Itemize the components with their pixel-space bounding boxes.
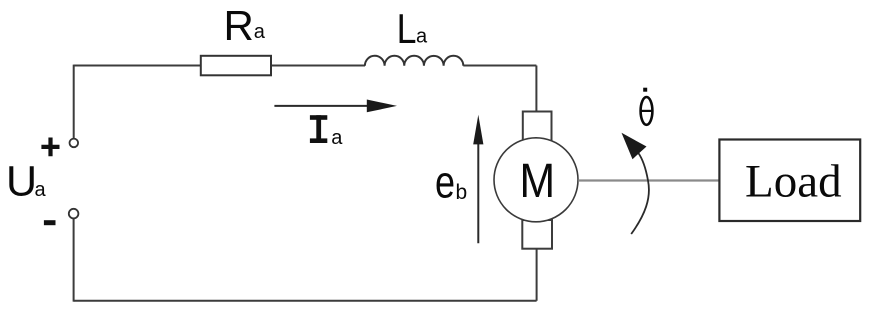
wire top horizontal right segment [463,65,536,67]
wire left rail upper [73,65,75,139]
motor M body [494,138,578,222]
wire left rail lower [73,219,75,302]
svg-text:L: L [397,6,417,52]
wire top horizontal left segment [74,65,202,67]
wire bottom horizontal [74,300,537,302]
label theta-dot: theta [641,97,653,125]
back-emf arrow eb [477,140,479,243]
wire top horizontal middle segment [271,65,365,67]
svg-text:a: a [254,21,266,43]
wire vertical into top brush [535,66,537,114]
svg-text:U: U [6,158,37,206]
svg-text:b: b [456,181,468,204]
svg-text:a: a [35,179,47,201]
terminal node + [70,139,79,148]
inductor L1 coil [365,56,463,66]
svg-text:Load: Load [745,156,842,208]
svg-text:a: a [331,127,343,149]
svg-text:R: R [224,2,254,49]
current arrow Ia [274,105,370,107]
terminal node - [69,209,79,219]
svg-text:e: e [435,157,455,208]
motor brush bottom [522,220,552,249]
wire vertical from bottom brush [536,248,538,301]
theta dot mark [643,88,647,92]
svg-text:a: a [416,26,428,48]
load box [719,140,860,222]
motor brush top [523,112,552,142]
shaft wire to load [578,179,720,181]
rotation arrowhead [622,133,647,159]
svg-text:M: M [520,154,556,208]
plus sign [41,138,59,157]
rotation arrow arc [631,153,649,235]
label Ia (serif I drawn as rects) [310,115,327,120]
minus sign [44,220,56,225]
resistor R1 body [201,56,271,76]
